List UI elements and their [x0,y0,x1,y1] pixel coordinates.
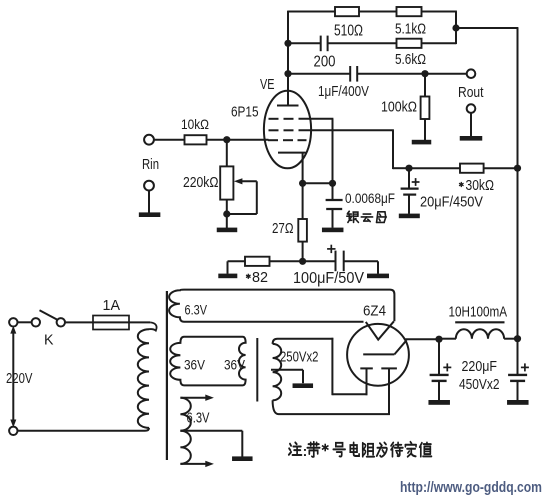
svg-text:1μF/400V: 1μF/400V [318,83,369,100]
svg-text:1A: 1A [103,297,121,314]
svg-text:250Vx2: 250Vx2 [280,350,319,366]
svg-text:10kΩ: 10kΩ [181,116,209,132]
svg-text:510Ω: 510Ω [334,22,363,39]
svg-text:http://www.go-gddq.com: http://www.go-gddq.com [400,479,542,496]
svg-text:6Z4: 6Z4 [363,303,386,320]
svg-text:6.3V: 6.3V [187,411,210,427]
svg-text:100kΩ: 100kΩ [381,99,417,116]
svg-text:Rin: Rin [142,157,159,173]
svg-text:220V: 220V [6,371,33,387]
svg-text:Rout: Rout [458,84,484,101]
svg-text:20μF/450V: 20μF/450V [420,194,483,211]
svg-text:30kΩ: 30kΩ [466,178,495,194]
svg-text:36V: 36V [224,357,246,373]
svg-text:0.0068μF: 0.0068μF [345,191,395,206]
svg-text:6P15: 6P15 [231,104,259,121]
svg-text:100μF/50V: 100μF/50V [293,270,365,287]
svg-text:10H100mA: 10H100mA [449,305,508,321]
svg-text:82: 82 [252,269,268,286]
svg-text:200: 200 [314,53,336,70]
svg-text:5.1kΩ: 5.1kΩ [395,20,426,37]
svg-text::: : [303,443,308,459]
svg-text:27Ω: 27Ω [272,220,294,237]
svg-text:220kΩ: 220kΩ [183,175,219,191]
svg-text:36V: 36V [184,357,206,373]
svg-text:5.6kΩ: 5.6kΩ [395,51,426,68]
svg-text:6.3V: 6.3V [185,302,208,318]
svg-text:220μF: 220μF [462,359,498,375]
svg-text:450Vx2: 450Vx2 [459,377,500,393]
svg-text:VE: VE [260,76,275,93]
svg-text:K: K [44,332,54,349]
